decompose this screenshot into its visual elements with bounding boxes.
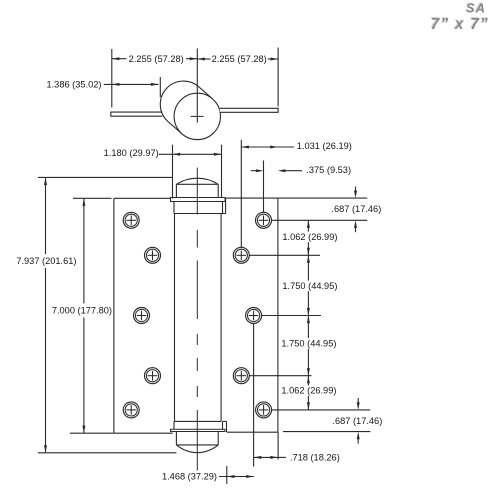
extension line from right middle hole down <box>253 323 255 466</box>
svg-text:1.031 (26.19): 1.031 (26.19) <box>297 141 352 151</box>
barrel top flange <box>171 198 226 202</box>
dimension 7.937 (201.61) vertical <box>45 177 47 254</box>
extension line for 1.468 dim <box>226 466 228 484</box>
svg-text:2.255 (57.28): 2.255 (57.28) <box>212 54 267 64</box>
svg-text:SA: SA <box>466 1 486 16</box>
7.937 bottom extension line <box>38 452 177 454</box>
svg-text:.687 (17.46): .687 (17.46) <box>332 416 382 426</box>
svg-text:7.937 (201.61): 7.937 (201.61) <box>16 256 76 266</box>
extension line for 1.386 dim <box>159 77 161 97</box>
dimension 1.031 (26.19) <box>241 146 277 148</box>
svg-text:1.468 (37.29): 1.468 (37.29) <box>162 472 217 482</box>
extension line from right upper-mid hole up <box>240 140 242 248</box>
screw hole right lower-mid <box>233 368 249 384</box>
dimension 1.750 (44.95) upper <box>307 255 309 280</box>
hole row line 2 <box>249 254 320 256</box>
top view right leaf (edge-on bar) <box>220 108 278 112</box>
extension line from right top hole up <box>263 161 265 213</box>
top view cylinder upper tangent line <box>199 87 213 99</box>
svg-text:7” x 7”: 7” x 7” <box>431 16 489 33</box>
dimension 2.255 (57.28) left <box>112 58 127 60</box>
svg-text:.375 (9.53): .375 (9.53) <box>306 165 351 175</box>
front view: left leaf plate <box>113 198 115 433</box>
extension line at right end of top view <box>277 48 279 107</box>
7.000 top extension line <box>73 197 112 199</box>
dimension 2.255 (57.28) right <box>197 58 210 60</box>
dimension 1.468 (37.29) <box>219 476 254 478</box>
1.180 extension lines <box>172 145 174 199</box>
dimension .687 (17.46) bottom <box>357 398 359 403</box>
barrel bottom flange <box>171 429 226 431</box>
svg-text:7.000 (177.80): 7.000 (177.80) <box>52 306 112 316</box>
screw hole left upper-mid <box>145 247 161 263</box>
top view rear circle arc of pin cylinder <box>160 81 199 122</box>
screw hole left lower-mid <box>145 368 161 384</box>
svg-text:.718 (18.26): .718 (18.26) <box>290 453 340 463</box>
top view cylinder lower tangent line <box>168 122 182 134</box>
svg-text:1.062 (26.99): 1.062 (26.99) <box>282 232 337 242</box>
top view front circle of pin cylinder <box>174 93 220 139</box>
extension line right edge down <box>277 432 279 459</box>
svg-text:2.255 (57.28): 2.255 (57.28) <box>129 54 184 64</box>
svg-text:1.750 (44.95): 1.750 (44.95) <box>281 339 336 349</box>
svg-text:1.180 (29.97): 1.180 (29.97) <box>104 148 159 158</box>
dimension 1.750 (44.95) lower <box>307 316 309 339</box>
screw hole left top <box>123 212 139 228</box>
barrel top collar <box>173 202 175 214</box>
dimension .718 (18.26) <box>254 456 278 458</box>
hole row line 4 <box>249 375 311 377</box>
dimension .687 (17.46) top <box>355 187 357 192</box>
hole row line 5 <box>272 409 371 411</box>
barrel centerline <box>196 168 198 215</box>
dimension 1.180 (29.97) <box>159 153 222 155</box>
screw hole left middle <box>134 308 150 324</box>
dimension 1.386 (35.02) <box>104 83 159 85</box>
center cross of pin <box>191 115 204 117</box>
svg-text:1.750 (44.95): 1.750 (44.95) <box>282 281 337 291</box>
dimension 1.062 (26.99) lower <box>307 376 309 386</box>
barrel bottom dome cap <box>176 445 218 453</box>
barrel top cap band <box>175 184 177 197</box>
top view left leaf (edge-on bar) <box>111 112 163 116</box>
bottom edge extension line right <box>283 431 370 433</box>
barrel tube <box>174 214 176 422</box>
dimension 7.000 (177.80) vertical <box>83 198 85 303</box>
front view: right leaf plate <box>220 197 368 199</box>
dimension .375 (9.53) <box>251 170 256 172</box>
barrel bottom collar <box>173 421 175 429</box>
screw hole right bottom <box>256 402 272 418</box>
svg-text:1.062 (26.99): 1.062 (26.99) <box>281 386 336 396</box>
center extension line through pin <box>196 49 198 123</box>
7.000 bottom extension line <box>70 432 114 434</box>
barrel top dome cap <box>176 178 218 184</box>
hole row line 3 <box>262 315 321 317</box>
screw hole right top <box>256 212 272 228</box>
svg-text:1.386 (35.02): 1.386 (35.02) <box>46 80 101 90</box>
extension line at left end of top view <box>111 49 113 108</box>
screw hole right middle <box>246 308 262 324</box>
screw hole left bottom <box>123 402 139 418</box>
dimension 1.062 (26.99) upper <box>307 220 309 231</box>
svg-text:.687 (17.46): .687 (17.46) <box>331 204 381 214</box>
barrel bottom cap band <box>175 432 177 445</box>
screw hole right upper-mid <box>233 247 249 263</box>
7.937 top extension line <box>38 176 173 178</box>
hole row line 1 <box>271 219 367 221</box>
